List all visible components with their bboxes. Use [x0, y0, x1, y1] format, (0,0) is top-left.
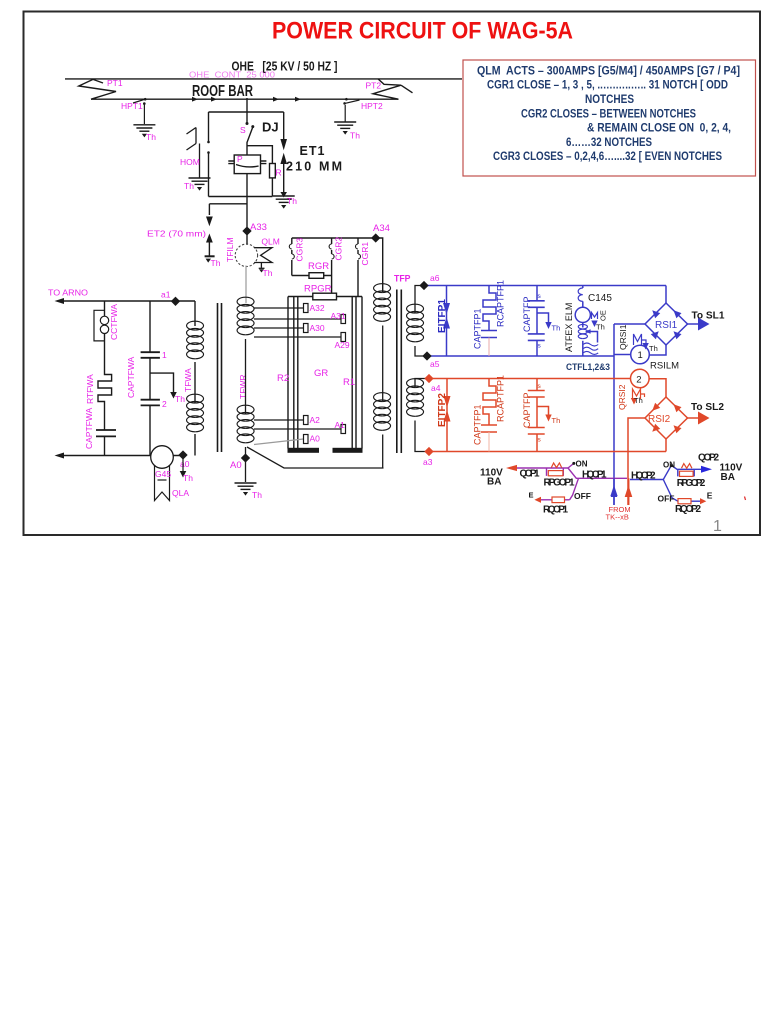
- svg-text:Th: Th: [183, 473, 193, 483]
- svg-text:P: P: [237, 154, 243, 164]
- svg-text:a3: a3: [423, 457, 433, 467]
- svg-text:a0: a0: [180, 459, 190, 469]
- svg-text:RGR: RGR: [308, 261, 329, 272]
- svg-text:CGR1: CGR1: [360, 242, 370, 266]
- svg-text:QOP2: QOP2: [698, 453, 719, 464]
- svg-text:ATFEX ELM: ATFEX ELM: [564, 303, 574, 352]
- svg-text:TFWR: TFWR: [238, 374, 248, 399]
- svg-text:CCTFWA: CCTFWA: [109, 304, 119, 340]
- svg-text:1: 1: [713, 518, 722, 535]
- svg-text:a5: a5: [430, 359, 440, 369]
- svg-text:1: 1: [162, 350, 167, 360]
- svg-text:RCAPTFP1: RCAPTFP1: [496, 375, 506, 422]
- svg-text:CGR3 CLOSES – 0,2,4,6…....32 [: CGR3 CLOSES – 0,2,4,6…....32 [ EVEN NOTC…: [493, 149, 722, 163]
- svg-text:BA: BA: [721, 472, 735, 483]
- svg-text:EITFP2: EITFP2: [437, 393, 448, 427]
- svg-text:OFF: OFF: [574, 491, 591, 501]
- svg-text:RSI2: RSI2: [648, 414, 671, 425]
- svg-text:RSI1: RSI1: [655, 320, 678, 331]
- svg-text:E: E: [707, 491, 713, 501]
- svg-text:Th: Th: [552, 416, 561, 425]
- svg-text:Th: Th: [184, 181, 194, 191]
- svg-text:A30: A30: [310, 323, 325, 333]
- svg-text:CAPTFWA: CAPTFWA: [84, 407, 94, 449]
- svg-text:A34: A34: [373, 223, 390, 234]
- svg-text:QLA: QLA: [172, 488, 189, 498]
- svg-text:Th: Th: [287, 196, 297, 206]
- svg-text:OE: OE: [599, 310, 608, 321]
- svg-text:POWER CIRCUIT OF WAG-5A: POWER CIRCUIT OF WAG-5A: [272, 18, 573, 45]
- svg-text:RQOP2: RQOP2: [675, 504, 701, 515]
- svg-text:a4: a4: [431, 383, 441, 393]
- svg-text:A31: A31: [331, 311, 346, 321]
- svg-text:C145: C145: [588, 293, 612, 304]
- svg-text:& REMAIN CLOSE ON 0, 2, 4,: & REMAIN CLOSE ON 0, 2, 4,: [587, 121, 731, 135]
- svg-text:HQOP2: HQOP2: [631, 470, 656, 481]
- svg-text:HOM: HOM: [180, 157, 200, 167]
- svg-text:Th: Th: [350, 131, 360, 141]
- svg-text:R1: R1: [343, 377, 355, 388]
- svg-text:TFILM: TFILM: [225, 237, 235, 262]
- svg-text:Th: Th: [263, 268, 273, 278]
- svg-text:HPT2: HPT2: [361, 101, 383, 111]
- svg-text:A33: A33: [250, 222, 267, 233]
- svg-text:CTFL1,2&3: CTFL1,2&3: [566, 362, 610, 373]
- svg-text:GR: GR: [314, 368, 328, 379]
- svg-text:Th: Th: [649, 344, 658, 353]
- svg-text:To SL1: To SL1: [692, 311, 725, 322]
- svg-text:RCAPTFP1: RCAPTFP1: [496, 280, 506, 327]
- svg-text:6……32 NOTCHES: 6……32 NOTCHES: [566, 135, 652, 149]
- svg-text:NOTCHES: NOTCHES: [585, 92, 634, 106]
- svg-text:EITFP1: EITFP1: [437, 299, 448, 333]
- svg-text:Th: Th: [634, 396, 643, 405]
- svg-text:OFF: OFF: [658, 494, 675, 504]
- svg-text:HQOP1: HQOP1: [582, 469, 607, 480]
- svg-text:S: S: [240, 125, 246, 135]
- svg-text:RQOP1: RQOP1: [543, 504, 568, 515]
- svg-text:A29: A29: [335, 340, 350, 350]
- svg-text:CGR2 CLOSES – BETWEEN NOTCHES: CGR2 CLOSES – BETWEEN NOTCHES: [521, 106, 696, 120]
- svg-text:A1: A1: [335, 420, 346, 430]
- svg-text:TFWA: TFWA: [183, 368, 193, 392]
- svg-text:HPT1: HPT1: [121, 101, 143, 111]
- svg-text:RPGOP1: RPGOP1: [544, 478, 575, 489]
- svg-text:CAPTFP1: CAPTFP1: [473, 308, 483, 349]
- svg-text:BA: BA: [487, 477, 501, 488]
- svg-text:CGR3: CGR3: [294, 238, 304, 262]
- svg-text:TO ARNO: TO ARNO: [48, 288, 88, 298]
- svg-text:QRSI1: QRSI1: [618, 324, 628, 350]
- svg-text:2: 2: [162, 399, 167, 409]
- svg-text:Th: Th: [552, 324, 561, 333]
- svg-text:G45: G45: [155, 469, 171, 479]
- svg-text:ET1: ET1: [300, 144, 325, 158]
- svg-text:PT2: PT2: [366, 81, 382, 91]
- svg-text:ON: ON: [576, 460, 588, 469]
- svg-text:QOP1: QOP1: [520, 469, 540, 480]
- svg-text:CGR1 CLOSE – 1, 3 , 5, ..….…..: CGR1 CLOSE – 1, 3 , 5, ..….…..….. 31 NOT…: [487, 78, 728, 92]
- svg-text:R: R: [276, 168, 282, 178]
- svg-text:E: E: [529, 491, 534, 500]
- svg-text:R2: R2: [277, 373, 289, 384]
- svg-text:CAPTFP1: CAPTFP1: [473, 404, 483, 445]
- svg-text:RTFWA: RTFWA: [85, 374, 95, 404]
- svg-text:Th: Th: [211, 258, 221, 268]
- svg-text:TFP: TFP: [394, 274, 411, 285]
- svg-text:QRSI2: QRSI2: [617, 384, 627, 410]
- svg-text:A0: A0: [310, 434, 321, 444]
- svg-text:a6: a6: [430, 273, 440, 283]
- svg-text:A2: A2: [310, 415, 321, 425]
- svg-text:ROOF BAR: ROOF BAR: [192, 83, 253, 100]
- svg-text:QLM ACTS – 300AMPS [G5/M4] /: QLM ACTS – 300AMPS [G5/M4] / 450AMPS [G7…: [477, 64, 740, 78]
- svg-text:a1: a1: [161, 290, 171, 300]
- svg-text:Th: Th: [175, 394, 185, 404]
- svg-text:Th: Th: [596, 323, 605, 332]
- svg-text:DJ: DJ: [262, 120, 279, 135]
- svg-text:Th: Th: [252, 490, 262, 500]
- svg-text:QLM: QLM: [261, 237, 279, 247]
- svg-text:Th: Th: [146, 132, 156, 142]
- svg-text:PT1: PT1: [107, 78, 123, 88]
- svg-text:CAPTFWA: CAPTFWA: [126, 356, 136, 398]
- svg-text:1: 1: [638, 350, 643, 361]
- svg-text:CAPTFP: CAPTFP: [522, 392, 532, 428]
- svg-text:OHE CONT 25 000: OHE CONT 25 000: [189, 69, 275, 79]
- svg-text:A32: A32: [310, 303, 325, 313]
- svg-text:To SL2: To SL2: [691, 402, 724, 413]
- svg-text:RPGOP2: RPGOP2: [677, 478, 706, 489]
- svg-text:RSILM: RSILM: [650, 361, 679, 372]
- svg-text:210 MM: 210 MM: [286, 160, 342, 174]
- svg-text:CGR2: CGR2: [334, 237, 344, 261]
- svg-text:TK--xB: TK--xB: [606, 513, 629, 522]
- svg-text:ET2 (70 mm): ET2 (70 mm): [147, 229, 206, 239]
- svg-text:CAPTFP: CAPTFP: [522, 296, 532, 332]
- svg-text:ON: ON: [663, 461, 675, 470]
- svg-text:A0: A0: [230, 460, 242, 471]
- svg-text:2: 2: [636, 375, 641, 386]
